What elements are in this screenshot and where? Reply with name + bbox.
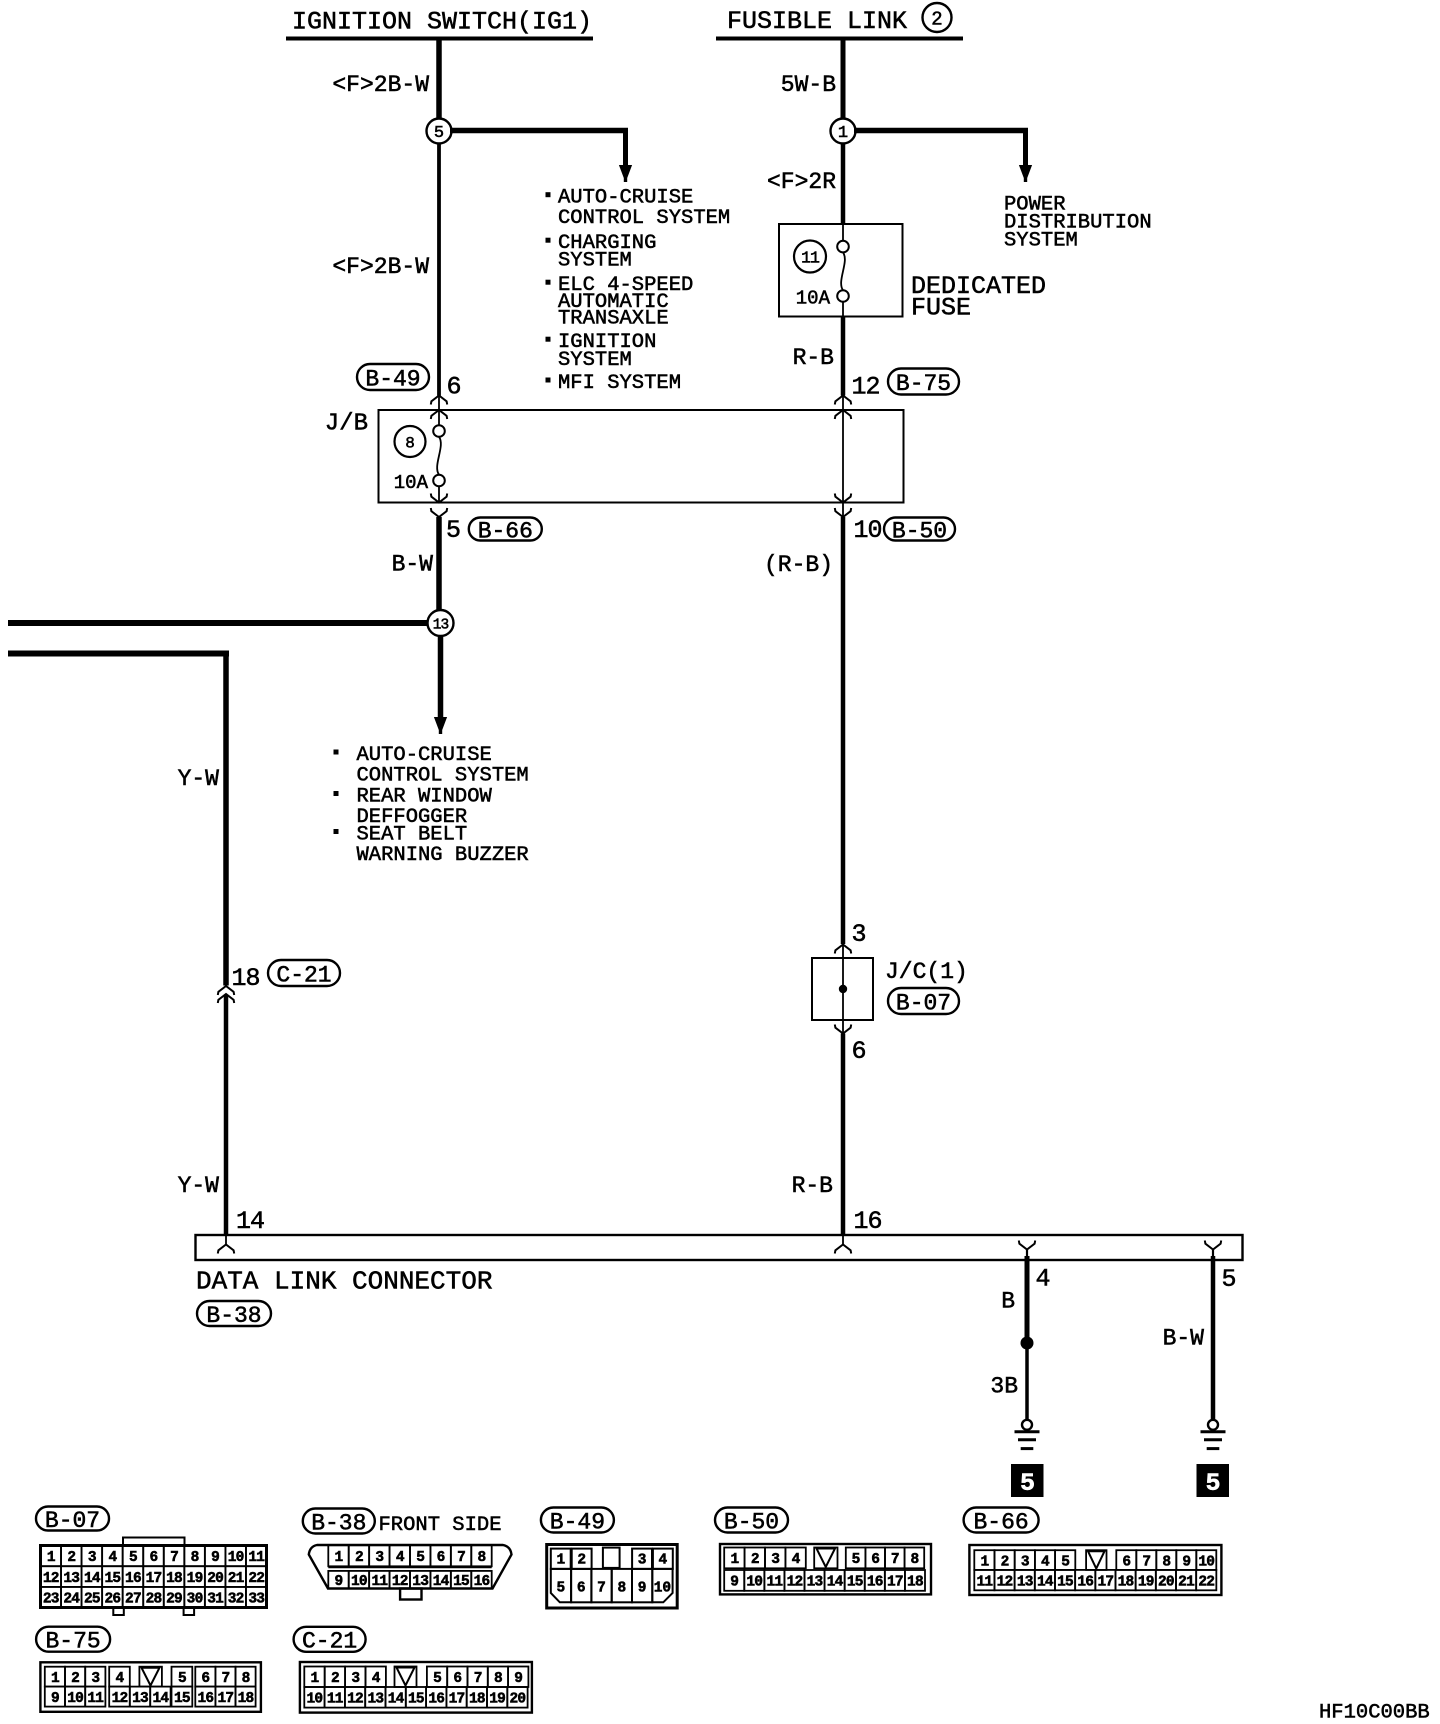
svg-text:3: 3 <box>375 1550 383 1566</box>
svg-text:B-38: B-38 <box>206 1303 261 1329</box>
svg-text:10A: 10A <box>796 288 831 310</box>
ground symbol left <box>1022 1420 1032 1430</box>
svg-text:5W-B: 5W-B <box>781 72 836 98</box>
svg-text:1: 1 <box>556 1553 565 1569</box>
connector label C-21 (pinout) <box>294 1627 366 1652</box>
svg-text:2: 2 <box>67 1550 75 1566</box>
svg-text:18: 18 <box>166 1571 182 1587</box>
svg-text:<F>2B-W: <F>2B-W <box>332 72 429 98</box>
connector label B-66 at J/B <box>469 518 542 541</box>
chevron of DLC pin 14 <box>225 1235 227 1244</box>
svg-text:6: 6 <box>453 1671 461 1687</box>
svg-text:19: 19 <box>489 1692 505 1708</box>
svg-text:8: 8 <box>405 435 415 453</box>
svg-text:1: 1 <box>838 124 848 143</box>
svg-text:B-66: B-66 <box>478 518 533 544</box>
connector pinout B-66 <box>969 1545 1221 1595</box>
svg-text:3: 3 <box>91 1671 99 1687</box>
svg-text:14: 14 <box>84 1571 101 1587</box>
svg-text:8: 8 <box>910 1552 918 1568</box>
svg-text:3: 3 <box>638 1553 647 1569</box>
chevron of DLC pin 5 <box>1205 1241 1221 1250</box>
svg-text:16: 16 <box>1077 1574 1093 1590</box>
svg-text:FUSIBLE LINK: FUSIBLE LINK <box>727 7 907 36</box>
svg-text:12: 12 <box>787 1575 803 1591</box>
svg-text:B-49: B-49 <box>550 1509 605 1535</box>
bus line under FUSIBLE LINK <box>716 37 963 41</box>
svg-text:13: 13 <box>367 1692 383 1708</box>
svg-text:10: 10 <box>351 1574 367 1590</box>
svg-text:6: 6 <box>201 1671 209 1687</box>
svg-text:5: 5 <box>557 1581 566 1597</box>
svg-text:10: 10 <box>307 1692 323 1708</box>
svg-text:22: 22 <box>1198 1574 1214 1590</box>
svg-text:DATA LINK CONNECTOR: DATA LINK CONNECTOR <box>196 1267 492 1297</box>
svg-text:J/C(1): J/C(1) <box>885 959 968 985</box>
svg-text:20: 20 <box>207 1571 223 1587</box>
svg-text:17: 17 <box>887 1575 903 1591</box>
svg-text:12: 12 <box>347 1692 363 1708</box>
svg-text:7: 7 <box>597 1581 606 1597</box>
svg-text:8: 8 <box>617 1581 626 1597</box>
connector pass-through chevrons at J/B top right (B-75 pin 12) <box>835 396 851 405</box>
svg-text:9: 9 <box>514 1671 522 1687</box>
svg-text:<F>2R: <F>2R <box>767 169 836 195</box>
svg-text:10A: 10A <box>394 472 429 494</box>
svg-text:7: 7 <box>457 1550 465 1566</box>
wire (F)2B-W from ignition switch to junction 5 <box>436 40 442 119</box>
connector label B-50 at J/B <box>884 518 955 541</box>
svg-text:23: 23 <box>43 1591 59 1607</box>
system list for IG1 feed <box>546 192 551 197</box>
junction dot inside J/C(1) <box>839 985 847 993</box>
svg-text:17: 17 <box>449 1692 465 1708</box>
svg-text:CONTROL SYSTEM: CONTROL SYSTEM <box>357 764 529 787</box>
svg-text:21: 21 <box>228 1571 245 1587</box>
junction 1 (circled) <box>831 119 856 144</box>
svg-text:R-B: R-B <box>792 1173 833 1199</box>
connector pass-through chevrons at J/B top left (B-49 pin 6) <box>431 396 447 405</box>
svg-text:4: 4 <box>116 1671 125 1687</box>
svg-text:12: 12 <box>852 373 880 402</box>
svg-text:11: 11 <box>87 1691 104 1707</box>
svg-text:1: 1 <box>980 1554 989 1570</box>
wire branch from junction 5 to systems arrow <box>450 128 628 134</box>
svg-text:25: 25 <box>84 1591 100 1607</box>
connector label B-38 (pinout) <box>303 1509 375 1534</box>
svg-text:20: 20 <box>1158 1574 1174 1590</box>
svg-text:2: 2 <box>355 1550 363 1566</box>
svg-text:14: 14 <box>1037 1574 1054 1590</box>
svg-text:R-B: R-B <box>793 345 834 371</box>
svg-text:10: 10 <box>746 1575 762 1591</box>
svg-text:11: 11 <box>371 1574 388 1590</box>
svg-text:3: 3 <box>852 920 867 949</box>
svg-text:18: 18 <box>232 964 260 993</box>
svg-text:WARNING BUZZER: WARNING BUZZER <box>357 844 529 867</box>
svg-text:1: 1 <box>47 1550 56 1566</box>
thin wire inside J/B left <box>438 396 440 426</box>
svg-text:22: 22 <box>248 1571 264 1587</box>
wire (F)2R from junction 1 to dedicated fuse <box>841 144 846 225</box>
connector pass-through chevrons at J/B bottom right (B-50 pin 10) <box>835 494 851 503</box>
svg-text:B: B <box>1001 1289 1015 1315</box>
svg-text:8: 8 <box>242 1671 250 1687</box>
thin wire inside J/B right <box>842 396 844 518</box>
fuse number 11 (circled) <box>794 241 826 273</box>
svg-text:31: 31 <box>207 1591 224 1607</box>
arrow to power distribution system <box>1023 128 1028 166</box>
svg-text:8: 8 <box>494 1671 502 1687</box>
svg-text:SYSTEM: SYSTEM <box>558 349 632 372</box>
connector label B-75 (pinout) <box>36 1627 110 1652</box>
svg-text:4: 4 <box>108 1550 117 1566</box>
svg-text:11: 11 <box>248 1550 265 1566</box>
svg-text:14: 14 <box>388 1692 405 1708</box>
connector label B-50 (pinout) <box>715 1508 788 1533</box>
svg-text:6: 6 <box>437 1550 445 1566</box>
connector pinout B-49 <box>547 1545 678 1609</box>
svg-text:26: 26 <box>105 1591 121 1607</box>
svg-text:18: 18 <box>469 1692 485 1708</box>
svg-text:MFI SYSTEM: MFI SYSTEM <box>558 372 681 395</box>
svg-text:4: 4 <box>792 1552 801 1568</box>
svg-text:17: 17 <box>146 1571 162 1587</box>
svg-text:33: 33 <box>248 1591 264 1607</box>
svg-text:13: 13 <box>132 1691 148 1707</box>
svg-text:8: 8 <box>1162 1554 1170 1570</box>
ground reference 5 (black square) <box>1012 1465 1044 1497</box>
svg-text:21: 21 <box>1178 1574 1195 1590</box>
svg-text:10: 10 <box>654 1581 671 1597</box>
connector label B-07 at J/C(1) <box>888 988 959 1014</box>
svg-text:TRANSAXLE: TRANSAXLE <box>558 307 669 330</box>
ground reference 5 (black square) right <box>1197 1465 1229 1497</box>
svg-text:15: 15 <box>453 1574 469 1590</box>
svg-text:6: 6 <box>150 1550 158 1566</box>
wire B from DLC pin 4 to ground <box>1025 1256 1030 1343</box>
svg-text:6: 6 <box>577 1581 586 1597</box>
connector label B-75 at J/B <box>888 369 959 395</box>
svg-text:(R-B): (R-B) <box>764 552 833 578</box>
svg-text:12: 12 <box>112 1691 128 1707</box>
svg-text:11: 11 <box>801 249 820 268</box>
svg-text:15: 15 <box>408 1692 424 1708</box>
junction 13 (circled) <box>428 610 454 636</box>
connector label B-07 (pinout) <box>36 1507 109 1531</box>
svg-text:14: 14 <box>152 1691 169 1707</box>
svg-text:11: 11 <box>327 1692 344 1708</box>
system list for diagnosis feed <box>334 750 339 755</box>
svg-text:4: 4 <box>659 1553 668 1569</box>
svg-text:B-49: B-49 <box>365 366 420 392</box>
wire 5W-B from fusible link to junction 1 <box>841 40 846 119</box>
svg-text:16: 16 <box>474 1574 490 1590</box>
svg-text:12: 12 <box>997 1574 1013 1590</box>
svg-text:B-W: B-W <box>392 552 434 578</box>
svg-text:14: 14 <box>433 1574 450 1590</box>
wire R-B from J/B pin 10 down to J/C(1) <box>841 517 846 944</box>
svg-text:14: 14 <box>236 1207 264 1236</box>
svg-text:3B: 3B <box>990 1374 1018 1400</box>
svg-text:15: 15 <box>847 1575 863 1591</box>
svg-text:5: 5 <box>1205 1469 1220 1498</box>
svg-text:2: 2 <box>751 1552 759 1568</box>
svg-text:18: 18 <box>238 1691 254 1707</box>
svg-text:15: 15 <box>174 1691 190 1707</box>
wire 3B below junction dot <box>1025 1343 1029 1420</box>
svg-text:9: 9 <box>211 1550 219 1566</box>
junction dot on ground wire <box>1021 1337 1034 1350</box>
svg-text:10: 10 <box>854 516 882 545</box>
connector label B-38 of DLC <box>197 1301 271 1326</box>
connector pinout B-75 <box>40 1662 261 1712</box>
svg-text:4: 4 <box>1036 1265 1051 1294</box>
svg-text:30: 30 <box>187 1591 203 1607</box>
thin wire through J/C(1) <box>842 945 844 1034</box>
wire B-W from J/B to junction 13 <box>436 517 442 611</box>
fuse element 11 10A <box>842 224 844 241</box>
svg-text:16: 16 <box>854 1207 882 1236</box>
svg-text:CONTROL SYSTEM: CONTROL SYSTEM <box>558 207 730 230</box>
svg-text:27: 27 <box>125 1591 141 1607</box>
svg-text:5: 5 <box>178 1671 186 1687</box>
svg-text:9: 9 <box>730 1575 738 1591</box>
connector pinout B-38 front view <box>309 1545 512 1589</box>
wire Y-W from C-21 to data link connector pin 14 <box>224 995 229 1236</box>
wire R-B from J/C(1) to data link connector pin 16 <box>841 1034 846 1236</box>
svg-text:4: 4 <box>1041 1554 1050 1570</box>
svg-text:B-07: B-07 <box>896 990 951 1016</box>
svg-text:13: 13 <box>1017 1574 1033 1590</box>
svg-text:6: 6 <box>852 1037 867 1066</box>
svg-text:1: 1 <box>730 1552 739 1568</box>
svg-text:1: 1 <box>311 1671 320 1687</box>
wire R-B from dedicated fuse to J/B (B-75) <box>841 317 846 396</box>
svg-text:19: 19 <box>1138 1574 1154 1590</box>
chevron entering J/C(1) <box>835 945 851 954</box>
svg-text:9: 9 <box>335 1574 343 1590</box>
svg-text:B-07: B-07 <box>45 1508 100 1534</box>
svg-text:8: 8 <box>191 1550 199 1566</box>
svg-text:16: 16 <box>428 1692 444 1708</box>
svg-text:9: 9 <box>1182 1554 1190 1570</box>
junction 5 (circled) <box>427 119 452 144</box>
connector label B-66 (pinout) <box>964 1508 1039 1533</box>
connector label C-21 inline <box>268 960 340 986</box>
svg-text:11: 11 <box>976 1574 993 1590</box>
svg-text:16: 16 <box>867 1575 883 1591</box>
svg-text:5: 5 <box>1061 1554 1069 1570</box>
svg-text:2: 2 <box>331 1671 339 1687</box>
svg-text:FRONT SIDE: FRONT SIDE <box>379 1514 502 1537</box>
svg-text:5: 5 <box>433 1671 441 1687</box>
svg-text:18: 18 <box>907 1575 923 1591</box>
svg-text:3: 3 <box>771 1552 779 1568</box>
svg-text:10: 10 <box>1198 1554 1214 1570</box>
svg-text:28: 28 <box>146 1591 162 1607</box>
connector pass-through chevrons at J/B bottom left (B-66 pin 5) <box>431 494 447 503</box>
svg-text:6: 6 <box>447 373 462 402</box>
svg-text:B-50: B-50 <box>892 518 947 544</box>
svg-text:5: 5 <box>1020 1469 1035 1498</box>
data link connector box <box>196 1235 1243 1260</box>
wire branch from junction 1 to power distribution arrow <box>854 128 1028 134</box>
connector pinout B-07 <box>123 1538 185 1546</box>
wire (F)2B-W from junction 5 to J/B (B-49) <box>437 144 441 396</box>
svg-text:12: 12 <box>43 1571 59 1587</box>
svg-text:9: 9 <box>638 1581 647 1597</box>
svg-text:2: 2 <box>577 1553 586 1569</box>
svg-text:3: 3 <box>1021 1554 1029 1570</box>
svg-text:5: 5 <box>446 516 461 545</box>
svg-text:5: 5 <box>852 1552 860 1568</box>
svg-text:8: 8 <box>478 1550 486 1566</box>
inline connector C-21 pin 18 chevrons on Y-W wire <box>218 986 234 995</box>
svg-text:6: 6 <box>871 1552 879 1568</box>
svg-text:6: 6 <box>1122 1554 1130 1570</box>
ground symbol right <box>1208 1420 1218 1430</box>
svg-text:5: 5 <box>416 1550 424 1566</box>
svg-text:7: 7 <box>891 1552 899 1568</box>
svg-text:HF10C00BB: HF10C00BB <box>1319 1702 1430 1724</box>
svg-text:13: 13 <box>63 1571 79 1587</box>
dedicated fuse box <box>779 224 903 317</box>
chevron of DLC pin 16 <box>842 1235 844 1244</box>
svg-text:3: 3 <box>88 1550 96 1566</box>
chevron leaving J/C(1) <box>835 1025 851 1034</box>
junction connector J/C(1) box <box>812 958 873 1020</box>
svg-text:1: 1 <box>51 1671 60 1687</box>
svg-text:B-66: B-66 <box>973 1509 1028 1535</box>
svg-text:1: 1 <box>335 1550 344 1566</box>
svg-text:32: 32 <box>228 1591 244 1607</box>
svg-text:15: 15 <box>105 1571 121 1587</box>
svg-text:7: 7 <box>474 1671 482 1687</box>
svg-text:4: 4 <box>396 1550 405 1566</box>
svg-text:15: 15 <box>1057 1574 1073 1590</box>
svg-text:Y-W: Y-W <box>178 1173 220 1199</box>
svg-text:3: 3 <box>351 1671 359 1687</box>
svg-text:C-21: C-21 <box>302 1629 357 1655</box>
wire from data link connector horizontal into junction 13 <box>8 620 429 626</box>
svg-text:17: 17 <box>218 1691 234 1707</box>
svg-text:B-75: B-75 <box>45 1628 100 1654</box>
svg-text:5: 5 <box>434 124 444 143</box>
svg-text:<F>2B-W: <F>2B-W <box>332 254 429 280</box>
svg-text:10: 10 <box>67 1691 83 1707</box>
svg-text:B-38: B-38 <box>311 1510 366 1536</box>
svg-text:13: 13 <box>807 1575 823 1591</box>
junction block J/B box <box>379 410 904 503</box>
bus line under IGNITION SWITCH <box>286 37 593 41</box>
svg-text:C-21: C-21 <box>276 962 331 988</box>
svg-text:7: 7 <box>221 1671 229 1687</box>
svg-text:18: 18 <box>1118 1574 1134 1590</box>
svg-text:B-75: B-75 <box>896 371 951 397</box>
svg-text:5: 5 <box>1222 1265 1237 1294</box>
svg-text:SYSTEM: SYSTEM <box>558 249 632 272</box>
svg-text:J/B: J/B <box>325 411 368 438</box>
svg-text:19: 19 <box>187 1571 203 1587</box>
connector pinout B-50 <box>720 1544 931 1594</box>
svg-text:5: 5 <box>129 1550 137 1566</box>
connector pinout C-21 <box>300 1662 532 1713</box>
svg-text:Y-W: Y-W <box>178 766 220 792</box>
svg-text:13: 13 <box>433 618 449 634</box>
arrow to auto-cruise/charging/ELC/ignition/MFI systems <box>623 128 628 166</box>
svg-text:9: 9 <box>51 1691 59 1707</box>
fuse 8 10A in J/B <box>395 426 426 457</box>
svg-text:4: 4 <box>372 1671 381 1687</box>
svg-text:2: 2 <box>931 9 942 31</box>
svg-text:24: 24 <box>63 1591 80 1607</box>
svg-text:2: 2 <box>1001 1554 1009 1570</box>
svg-text:B-50: B-50 <box>724 1509 779 1535</box>
svg-text:FUSE: FUSE <box>911 294 971 323</box>
svg-text:16: 16 <box>197 1691 213 1707</box>
svg-text:IGNITION SWITCH(IG1): IGNITION SWITCH(IG1) <box>292 8 592 37</box>
svg-text:20: 20 <box>510 1692 526 1708</box>
svg-text:16: 16 <box>125 1571 141 1587</box>
arrow from junction 13 to systems <box>438 635 444 718</box>
svg-text:2: 2 <box>71 1671 79 1687</box>
svg-text:7: 7 <box>1142 1554 1150 1570</box>
wire B-W from DLC pin 5 to ground <box>1211 1256 1216 1420</box>
svg-text:B-W: B-W <box>1163 1326 1205 1352</box>
wire Y-W vertical run <box>223 651 229 986</box>
svg-text:11: 11 <box>766 1575 783 1591</box>
svg-text:14: 14 <box>827 1575 844 1591</box>
connector label B-49 (pinout) <box>541 1508 614 1533</box>
svg-text:10: 10 <box>228 1550 244 1566</box>
svg-text:SYSTEM: SYSTEM <box>1004 230 1078 253</box>
svg-text:7: 7 <box>170 1550 178 1566</box>
circled 2 of FUSIBLE LINK <box>923 3 952 32</box>
connector label B-49 <box>357 364 429 390</box>
chevron of DLC pin 4 <box>1019 1241 1035 1250</box>
wire Y-W horizontal from left edge <box>8 651 229 657</box>
svg-text:29: 29 <box>166 1591 182 1607</box>
svg-text:17: 17 <box>1097 1574 1113 1590</box>
